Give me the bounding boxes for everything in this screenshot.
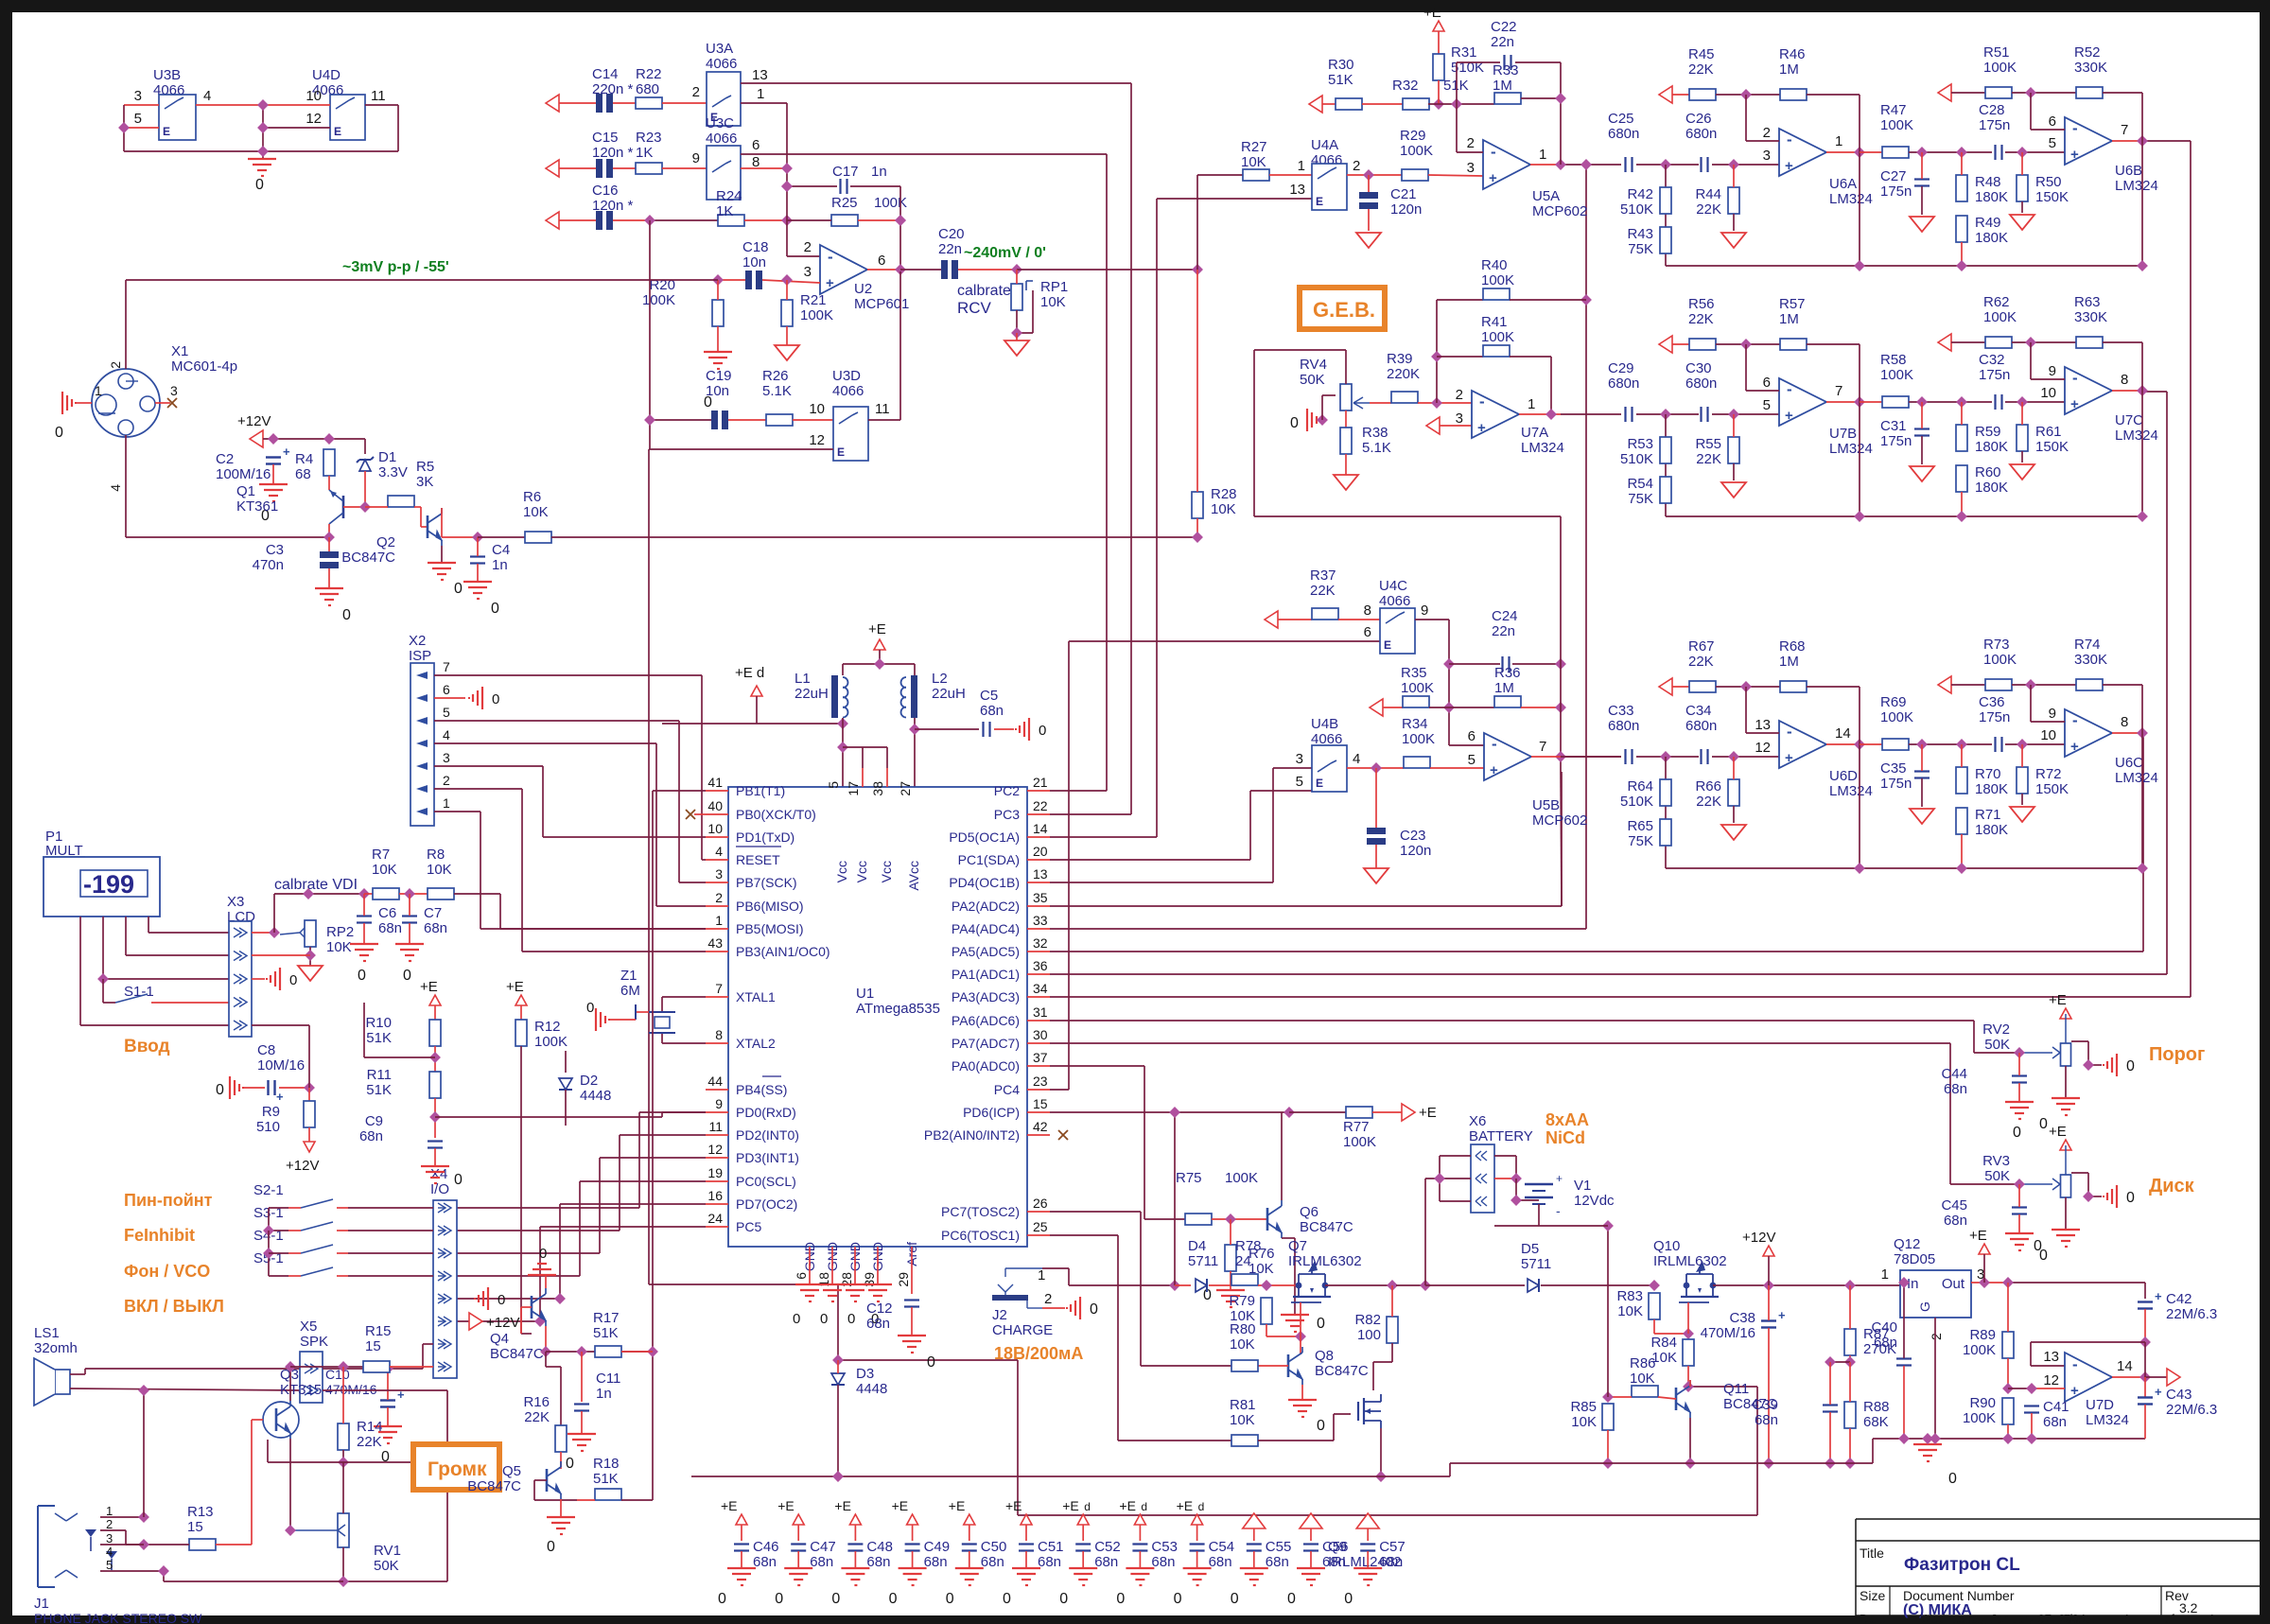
- U1 top pins: [826, 768, 921, 891]
- svg-text:R52: R52: [2074, 44, 2101, 61]
- svg-text:U4C: U4C: [1379, 578, 1407, 594]
- wire R36 right: [1521, 707, 1561, 708]
- svg-text:10: 10: [2040, 385, 2056, 401]
- svg-text:LM324: LM324: [1829, 783, 1873, 799]
- svg-text:0: 0: [1174, 1591, 1182, 1607]
- switch U4B: [1312, 745, 1347, 792]
- junction R14 top: [338, 1361, 349, 1372]
- svg-text:PD4(OC1B): PD4(OC1B): [949, 875, 1020, 890]
- svg-text:PA4(ADC4): PA4(ADC4): [952, 921, 1020, 936]
- svg-text:R56: R56: [1688, 296, 1715, 312]
- svg-text:LM324: LM324: [1521, 440, 1564, 456]
- wire D2 bottom: [565, 1090, 567, 1126]
- svg-text:175n: 175n: [1880, 433, 1912, 449]
- svg-text:2: 2: [443, 773, 450, 788]
- ground C12: [898, 1336, 935, 1371]
- svg-text:R41: R41: [1481, 314, 1508, 330]
- resistor R73: [1985, 679, 2012, 690]
- svg-text:ВКЛ / ВЫКЛ: ВКЛ / ВЫКЛ: [124, 1297, 224, 1316]
- wire R21 top: [786, 280, 788, 300]
- svg-text:I/O: I/O: [430, 1181, 449, 1197]
- svg-text:6: 6: [1468, 728, 1475, 744]
- junction x1700 top: [1602, 1220, 1614, 1231]
- wire R27 feed: [1197, 175, 1243, 270]
- wire R88 bot: [1849, 1428, 1851, 1463]
- junction R89R90: [2002, 1383, 2014, 1394]
- wire C22 left: [1457, 61, 1500, 63]
- R25 label: [831, 195, 907, 211]
- svg-text:3K: 3K: [416, 474, 433, 490]
- junction U2 out: [895, 264, 906, 275]
- svg-text:680n: 680n: [1608, 718, 1639, 734]
- pin 5 J1: [106, 1558, 113, 1572]
- svg-text:R29: R29: [1400, 128, 1426, 144]
- pot RV4: [1340, 384, 1370, 410]
- pot RV2: [2052, 1043, 2071, 1066]
- wire batt vert: [1424, 1179, 1426, 1285]
- Q5 label: [467, 1463, 521, 1494]
- svg-text:10K: 10K: [427, 862, 452, 878]
- R87 label: [1863, 1326, 1896, 1357]
- C35 label: [1880, 760, 1912, 792]
- svg-text:R54: R54: [1627, 476, 1653, 492]
- svg-text:Title: Title: [1860, 1545, 1884, 1561]
- wire R13 left: [144, 1544, 189, 1545]
- junction R14 rail: [338, 1457, 349, 1468]
- svg-text:U6C: U6C: [2115, 755, 2143, 771]
- resistor R89: [2002, 1332, 2014, 1358]
- transistor Q8: [1288, 1347, 1302, 1385]
- svg-text:NiCd: NiCd: [1545, 1128, 1585, 1147]
- svg-text:C32: C32: [1979, 352, 2005, 368]
- ground RV3 side: [2104, 1185, 2135, 1208]
- svg-text:of: of: [2164, 1612, 2174, 1624]
- svg-text:2: 2: [1044, 1291, 1052, 1307]
- wire C11 drop: [581, 1352, 583, 1402]
- svg-text:C28: C28: [1979, 102, 2005, 118]
- R82 label: [1354, 1312, 1381, 1343]
- svg-text:+: +: [2070, 739, 2079, 755]
- resistor R27: [1243, 169, 1269, 181]
- wire R76 top: [1230, 1219, 1231, 1245]
- wire C24 right: [1512, 663, 1561, 665]
- wire PC2 net: [1050, 154, 1107, 791]
- svg-text:330K: 330K: [2074, 309, 2107, 325]
- junction U5A out a: [1555, 159, 1566, 170]
- svg-text:Document Number: Document Number: [1903, 1588, 2015, 1603]
- svg-text:R83: R83: [1616, 1288, 1643, 1304]
- input arrow R62: [1938, 334, 1951, 351]
- svg-text:22K: 22K: [357, 1434, 382, 1450]
- svg-text:100K: 100K: [1401, 680, 1434, 696]
- svg-text:68n: 68n: [753, 1554, 777, 1570]
- C22 label: [1491, 19, 1517, 50]
- junction C7: [404, 888, 415, 899]
- svg-text:100K: 100K: [1880, 117, 1913, 133]
- wire R14 top: [342, 1367, 344, 1423]
- capacitor C14: [596, 94, 613, 113]
- resistor R47: [1882, 147, 1909, 158]
- svg-text:0: 0: [547, 1539, 555, 1555]
- svg-text:RV3: RV3: [1982, 1153, 2010, 1169]
- svg-text:22K: 22K: [1688, 61, 1714, 78]
- pin 2 J1: [106, 1517, 113, 1531]
- wire to n1 R42: [1636, 164, 1699, 166]
- svg-text:0: 0: [2126, 1190, 2135, 1206]
- wire C17 right: [850, 186, 900, 271]
- svg-text:D2: D2: [580, 1073, 598, 1089]
- wire nodeT down: [2031, 342, 2065, 379]
- svg-text:120n *: 120n *: [592, 145, 634, 161]
- svg-text:+E: +E: [1119, 1498, 1136, 1513]
- C5 label: [980, 688, 1004, 719]
- capacitor C50: [946, 1498, 1007, 1607]
- input arrow R35: [1370, 699, 1383, 716]
- wire RP1 top: [1016, 270, 1018, 284]
- junction rail end: [2137, 260, 2148, 271]
- svg-text:42: 42: [1033, 1119, 1048, 1134]
- svg-text:Wednesday, January 07, 2004: Wednesday, January 07, 2004: [1920, 1612, 2086, 1624]
- svg-text:680n: 680n: [1685, 126, 1717, 142]
- svg-text:0: 0: [793, 1311, 800, 1327]
- junction n2 R66: [1728, 751, 1739, 762]
- capacitor C24: [1503, 656, 1510, 672]
- ground R72: [2010, 807, 2034, 822]
- svg-text:4066: 4066: [706, 56, 737, 72]
- wire C23 gnd: [1375, 845, 1377, 868]
- svg-text:68n: 68n: [1379, 1554, 1403, 1570]
- svg-text:calbrate VDI: calbrate VDI: [274, 877, 358, 893]
- svg-text:PD6(ICP): PD6(ICP): [963, 1105, 1020, 1120]
- capacitor C56: [1287, 1513, 1349, 1607]
- wire J1 p1: [100, 1516, 144, 1518]
- pot RV3: [2052, 1175, 2071, 1197]
- wire X5 r2 right: [323, 1390, 447, 1462]
- wire R72 gnd2: [2021, 794, 2023, 805]
- R39 label: [1387, 351, 1420, 382]
- resistor R11: [429, 1072, 441, 1098]
- wire out long right: [1017, 269, 1197, 271]
- pin2 U4A: [1353, 158, 1360, 174]
- input arrow R37: [1265, 611, 1278, 628]
- svg-text:R22: R22: [636, 66, 662, 82]
- resistor R24: [718, 215, 744, 226]
- wire bottom rail: [691, 1439, 2145, 1476]
- R61 label: [2035, 424, 2069, 455]
- svg-text:6: 6: [878, 253, 885, 269]
- ground C7: [395, 944, 424, 984]
- ground C11: [566, 1434, 596, 1472]
- svg-text:8: 8: [2121, 714, 2128, 730]
- svg-text:R16: R16: [523, 1394, 550, 1410]
- junction n4 R59: [1956, 396, 1967, 408]
- wire U4B pin4: [1347, 767, 1404, 769]
- ground Q2: [428, 563, 463, 597]
- svg-text:330K: 330K: [2074, 60, 2107, 76]
- svg-text:X2: X2: [409, 633, 426, 649]
- svg-text:MCP602: MCP602: [1532, 812, 1587, 829]
- svg-text:U4D: U4D: [312, 67, 340, 83]
- wire U3D pin11: [868, 271, 900, 420]
- ground Q6: [1281, 1315, 1325, 1332]
- plug J2: [992, 1268, 1042, 1308]
- pin11 U3D: [875, 401, 890, 417]
- svg-text:C9: C9: [365, 1113, 383, 1129]
- resistor R48: [1956, 175, 1967, 201]
- svg-text:Q5: Q5: [502, 1463, 521, 1479]
- svg-text:+E: +E: [868, 621, 886, 637]
- svg-text:3.2: 3.2: [2179, 1600, 2198, 1615]
- svg-text:R30: R30: [1328, 57, 1354, 73]
- svg-text:E: E: [1316, 777, 1323, 790]
- svg-text:C50: C50: [981, 1539, 1007, 1555]
- svg-text:50K: 50K: [374, 1558, 399, 1574]
- resistor R77: [1346, 1107, 1372, 1118]
- junction L top: [874, 658, 885, 670]
- wire PC4 net: [1050, 1089, 1069, 1091]
- capacitor C29: [1626, 407, 1633, 422]
- junction R82 top: [1387, 1280, 1398, 1291]
- C16 label: [592, 183, 634, 214]
- svg-text:100K: 100K: [1400, 143, 1433, 159]
- svg-text:1: 1: [1298, 158, 1305, 174]
- capacitor C32: [1996, 394, 2002, 410]
- svg-text:0: 0: [831, 1591, 840, 1607]
- wire nodeAA: [1716, 686, 1780, 688]
- wire C12 gnd: [911, 1307, 913, 1336]
- calbrate RCV label: [957, 283, 1011, 317]
- wire U6D out: [1826, 743, 1860, 745]
- svg-text:2: 2: [1353, 158, 1360, 174]
- wire X1 pin3: [155, 402, 170, 404]
- svg-text:+: +: [1489, 170, 1497, 186]
- svg-text:C30: C30: [1685, 360, 1712, 376]
- wire L2 top lead: [914, 664, 916, 675]
- svg-text:PB5(MOSI): PB5(MOSI): [736, 921, 804, 936]
- resistor R41: [1483, 345, 1510, 357]
- wire P1 p2: [126, 917, 229, 955]
- Q6 label: [1300, 1204, 1353, 1235]
- junction nodeB R41: [1431, 351, 1442, 362]
- svg-text:680n: 680n: [1608, 126, 1639, 142]
- junction R85 top: [1602, 1391, 1614, 1403]
- svg-text:10K: 10K: [523, 504, 549, 520]
- R4 label: [295, 451, 313, 482]
- svg-text:0: 0: [454, 581, 463, 597]
- R20 label: [642, 277, 675, 308]
- svg-text:0: 0: [1090, 1301, 1098, 1318]
- resistor R82: [1387, 1317, 1398, 1343]
- svg-text:-: -: [828, 248, 833, 266]
- pin2 Q12: [1929, 1333, 1944, 1340]
- svg-text:100: 100: [1357, 1327, 1381, 1343]
- nc cross PB0: [686, 810, 695, 819]
- svg-text:R84: R84: [1650, 1335, 1677, 1351]
- resistor R76: [1225, 1245, 1236, 1271]
- resistor R67: [1689, 681, 1716, 692]
- ground RV2 side: [2104, 1054, 2135, 1076]
- wire C22 right: [1515, 62, 1561, 165]
- capacitor C45: [2012, 1208, 2027, 1214]
- junction batt tap: [1420, 1280, 1431, 1291]
- capacitor C57: [1344, 1513, 1406, 1607]
- svg-text:R26: R26: [762, 368, 789, 384]
- pin 13 opamp2 minus: [1755, 717, 1771, 733]
- svg-text:Sheet: Sheet: [2062, 1612, 2094, 1624]
- junction Ed-L1: [837, 718, 848, 729]
- wire U3D pin12 long: [649, 449, 1757, 1515]
- C23 label: [1400, 828, 1431, 859]
- Q1 base wire: [343, 506, 365, 508]
- resistor R13: [189, 1539, 216, 1550]
- switch S1-1: [115, 984, 229, 1003]
- wire Q4 base: [521, 1307, 532, 1334]
- U1 label: [856, 986, 940, 1017]
- svg-text:PC6(TOSC1): PC6(TOSC1): [941, 1228, 1020, 1243]
- svg-text:In: In: [1907, 1276, 1919, 1292]
- Q4 label: [490, 1331, 544, 1362]
- svg-text:68n: 68n: [1038, 1554, 1061, 1570]
- resistor R21: [781, 300, 793, 326]
- wire R58-n3: [1909, 401, 1992, 403]
- wire Q6 emitter: [1282, 1238, 1295, 1315]
- capacitor C42: [2138, 1289, 2162, 1309]
- U7D label: [2086, 1397, 2129, 1428]
- svg-text:R59: R59: [1975, 424, 2001, 440]
- wire U3B pin4 to U4D pin10: [196, 104, 330, 106]
- wire nodeAA: [1716, 94, 1780, 96]
- pin 4 X2: [443, 727, 450, 742]
- U7C label: [2115, 412, 2158, 444]
- svg-text:R47: R47: [1880, 102, 1907, 118]
- wire plus node: [2008, 1388, 2032, 1389]
- wire U7D out: [2112, 1376, 2145, 1378]
- wire R26-U3D: [793, 419, 833, 421]
- svg-text:18В/200мА: 18В/200мА: [994, 1344, 1083, 1363]
- label Диск: [2149, 1176, 2195, 1196]
- ground RP1: [1004, 341, 1029, 356]
- wire C21 gnd: [1368, 209, 1370, 231]
- wire R16-Q5: [560, 1452, 562, 1469]
- junction Q11 coll: [1683, 1381, 1694, 1392]
- svg-text:68n: 68n: [1944, 1213, 1967, 1229]
- switch U3C: [707, 146, 741, 200]
- wire X1 pin1: [77, 402, 92, 404]
- wire PA0 net: [1050, 1065, 1144, 1067]
- Q11 label: [1723, 1381, 1777, 1412]
- ground X2 pin6: [469, 687, 499, 709]
- svg-text:R85: R85: [1570, 1399, 1597, 1415]
- junction n1 R53: [1660, 409, 1671, 420]
- svg-text:R12: R12: [534, 1019, 561, 1035]
- wire R47-n3: [1909, 151, 1992, 153]
- svg-text:PB2(AIN0/INT2): PB2(AIN0/INT2): [924, 1127, 1020, 1143]
- wire RV1 bot: [343, 1462, 447, 1581]
- wire to R40: [1437, 299, 1483, 301]
- svg-text:68n: 68n: [1266, 1554, 1289, 1570]
- capacitor C47: [775, 1498, 836, 1607]
- wire R50 gnd: [2021, 152, 2023, 175]
- connector X6 label: [1469, 1113, 1533, 1144]
- resistor R63: [2076, 337, 2103, 348]
- capacitor C40: [1896, 1359, 1912, 1366]
- svg-text:-199: -199: [83, 870, 134, 899]
- R51 label: [1983, 44, 2017, 76]
- R15 label: [365, 1323, 392, 1354]
- junction S3: [263, 1225, 274, 1236]
- svg-text:Q12: Q12: [1894, 1236, 1920, 1252]
- R75 label: [1176, 1170, 1258, 1186]
- resistor R33: [1494, 93, 1521, 104]
- junction n4 R70: [1956, 739, 1967, 750]
- wire node-R24: [650, 219, 718, 221]
- junction out E: [1979, 1277, 1990, 1288]
- junction C18 right: [781, 274, 793, 286]
- wire x1700 vert: [1607, 1226, 1609, 1397]
- capacitor C53: [1116, 1498, 1178, 1607]
- svg-text:D3: D3: [856, 1366, 874, 1382]
- wire S3 left: [269, 1230, 288, 1231]
- svg-text:X3: X3: [227, 894, 244, 910]
- junction R88 rail: [1844, 1458, 1856, 1469]
- wire X3 r3: [252, 978, 265, 980]
- C4 label: [492, 542, 510, 573]
- svg-text:0: 0: [358, 968, 366, 984]
- wire RV4 top loop: [1254, 350, 1561, 516]
- R71 label: [1975, 807, 2008, 838]
- svg-text:68n: 68n: [1151, 1554, 1175, 1570]
- svg-text:+E: +E: [1419, 1105, 1437, 1121]
- svg-text:100K: 100K: [642, 292, 675, 308]
- capacitor C38: [1761, 1308, 1786, 1328]
- svg-text:180K: 180K: [1975, 822, 2008, 838]
- resistor R20: [712, 300, 724, 326]
- svg-text:R49: R49: [1975, 215, 2001, 231]
- svg-text:37: 37: [1033, 1050, 1048, 1065]
- svg-text:D1: D1: [378, 449, 396, 465]
- pot RP2: [300, 920, 316, 947]
- wire X5 r1 right: [323, 1344, 433, 1369]
- junction C2 top: [268, 433, 279, 445]
- svg-text:10: 10: [809, 401, 825, 417]
- wire U3A pin13 h: [741, 82, 1131, 84]
- C19 label: [706, 368, 732, 399]
- svg-text:U3A: U3A: [706, 41, 733, 57]
- svg-text:PA1(ADC1): PA1(ADC1): [952, 967, 1020, 982]
- wire C44 gnd: [2018, 1083, 2020, 1102]
- wire +Ed left: [662, 723, 757, 725]
- wire U6A out: [1826, 151, 1860, 153]
- ground R44: [1721, 233, 1746, 248]
- wire C4 gnd: [477, 564, 479, 582]
- wire to n2 R66: [1712, 756, 1779, 758]
- R81 label: [1230, 1397, 1256, 1428]
- svg-text:PD2(INT0): PD2(INT0): [736, 1127, 799, 1143]
- junction R25 right: [895, 215, 906, 226]
- svg-text:U1: U1: [856, 986, 874, 1002]
- svg-text:C6: C6: [378, 905, 396, 921]
- svg-text:3: 3: [1296, 751, 1303, 767]
- svg-text:22M/6.3: 22M/6.3: [2166, 1402, 2217, 1418]
- pin1 U4A: [1298, 158, 1305, 174]
- R34 label: [1402, 716, 1435, 747]
- pin 9 opamp3 minus: [2049, 706, 2056, 722]
- junction 687-444: [644, 414, 655, 426]
- capacitor C21: [1359, 192, 1378, 209]
- svg-text:C2: C2: [216, 451, 234, 467]
- wire C10 top: [387, 1369, 389, 1400]
- svg-text:12: 12: [809, 432, 825, 448]
